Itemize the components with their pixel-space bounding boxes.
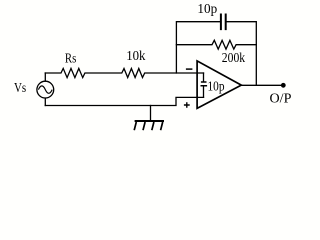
svg-text:O/P: O/P <box>270 91 292 106</box>
svg-text:Rs: Rs <box>65 50 76 65</box>
svg-text:10p: 10p <box>208 79 225 94</box>
svg-text:200k: 200k <box>222 51 245 66</box>
svg-text:10p: 10p <box>197 2 217 17</box>
svg-text:Vs: Vs <box>14 81 26 96</box>
svg-text:10k: 10k <box>126 49 145 64</box>
